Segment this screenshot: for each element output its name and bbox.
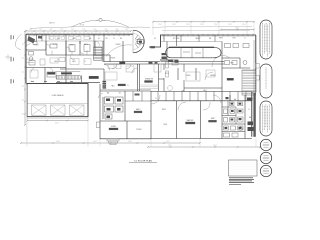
svg-text:STUDY: STUDY (53, 44, 58, 46)
svg-text:FY: FY (30, 38, 32, 40)
center hall walls (100, 60, 178, 91)
staircase hatched left (57, 76, 79, 79)
right wing top band dividers (161, 41, 223, 43)
svg-text:BED: BED (73, 38, 76, 40)
svg-text:12'-4": 12'-4" (214, 24, 218, 26)
tower core dark marks (138, 40, 144, 44)
svg-text:14'-0": 14'-0" (93, 141, 97, 143)
svg-text:12'-4": 12'-4" (158, 24, 162, 26)
garage dimension (26, 120, 89, 122)
outer walls (26, 34, 256, 137)
kitchen perimeter counters (166, 62, 179, 77)
top band dividers (37, 34, 105, 62)
top closet band dividers right wing (158, 92, 246, 101)
note pill 2 (260, 64, 272, 98)
door arc foyer (26, 44, 30, 48)
eave wavy line left (30, 26, 150, 28)
small fixtures right wing (225, 44, 250, 65)
hall dark label center wing (118, 84, 126, 86)
svg-text:16'-8": 16'-8" (235, 27, 239, 29)
garage outer walls (27, 84, 88, 117)
svg-text:14'-0": 14'-0" (166, 141, 170, 143)
svg-text:LNDRY: LNDRY (111, 126, 116, 128)
dark blob 2 (38, 36, 42, 38)
svg-text:ST: ST (49, 38, 51, 40)
bath maze walls (222, 101, 245, 132)
svg-text:RIDGE: RIDGE (80, 25, 84, 27)
kitchen island oval (166, 47, 221, 58)
garage top wall tick text (31, 80, 73, 83)
left margin tick (5, 55, 12, 60)
interior walls left block (26, 41, 224, 139)
eave line right (152, 26, 252, 27)
dark label above stair (61, 73, 71, 75)
svg-text:14'-0": 14'-0" (128, 141, 132, 143)
svg-text:CL: CL (113, 38, 115, 40)
svg-text:12'-4": 12'-4" (200, 24, 204, 26)
kitchen counters cluster (162, 53, 179, 63)
dining curve arc (106, 45, 132, 57)
left margin dim text smudges (11, 35, 14, 84)
svg-text:DN: DN (105, 38, 107, 40)
svg-text:CL: CL (155, 98, 157, 100)
svg-text:12'-4": 12'-4" (172, 24, 176, 26)
title block small line (229, 183, 241, 186)
title block text lines (229, 177, 254, 182)
svg-text:BRKF: BRKF (219, 38, 223, 40)
corridor door arcs (31, 55, 117, 73)
hall dark label (89, 76, 99, 78)
exterior boxes right wall (256, 64, 259, 81)
wing closet dividers (125, 92, 151, 102)
svg-text:BED 3: BED 3 (136, 109, 141, 111)
upper porch wall line right (162, 30, 250, 32)
porch steps (107, 139, 119, 145)
svg-text:LIV: LIV (154, 38, 156, 40)
svg-text:PORCH: PORCH (136, 129, 141, 131)
svg-text:CL: CL (40, 38, 42, 40)
note pill 1 (260, 20, 272, 59)
svg-text:12'-4": 12'-4" (242, 24, 246, 26)
svg-text:WC: WC (119, 93, 121, 95)
top dimension far right (220, 29, 255, 31)
window inner lines top walls (28, 34, 254, 37)
svg-text:1st FLOOR PLAN: 1st FLOOR PLAN (134, 159, 152, 162)
extra left block marks (26, 41, 100, 65)
right wing interior walls (100, 42, 252, 140)
svg-text:14'-0": 14'-0" (56, 141, 60, 143)
left vertical dim numbers (22, 42, 24, 114)
entry diagonal dark fixture (27, 36, 35, 43)
svg-text:HL: HL (98, 38, 100, 40)
svg-text:TERR: TERR (163, 124, 167, 126)
svg-text:DINING: DINING (115, 44, 121, 46)
stamp circle 1 (260, 139, 271, 150)
right wall dark band (253, 93, 255, 137)
tower stair treads (135, 35, 142, 48)
faint garage extension (26, 85, 28, 142)
top dimension line right upper (152, 21, 255, 23)
extension lines bottom (27, 117, 256, 147)
corridor dark marks right (149, 62, 153, 64)
svg-text:CL: CL (163, 38, 165, 40)
svg-text:12'-4": 12'-4" (186, 24, 190, 26)
svg-text:BED 1: BED 1 (70, 45, 74, 47)
wing door arc (99, 94, 104, 99)
stamp circle 2 (260, 152, 271, 163)
center wing bath fixtures (105, 97, 124, 119)
dome callout circle (99, 18, 102, 21)
dark label bar left room (48, 72, 56, 74)
window mullion ticks (29, 34, 253, 36)
bottom long dimension (20, 142, 201, 144)
svg-text:BED 2: BED 2 (211, 118, 216, 120)
hall door arcs left (132, 68, 138, 74)
garage door X-box 3 (70, 105, 85, 115)
bathroom fixtures outlines (224, 102, 244, 137)
door arcs bottom right (151, 95, 221, 110)
chimney box left of wing (96, 122, 100, 128)
svg-text:NOOK: NOOK (165, 73, 169, 75)
furniture marks left rooms (30, 58, 134, 80)
staircase hatched right (243, 71, 256, 94)
fixture dark accents (225, 97, 254, 131)
svg-text:DEN: DEN (232, 38, 235, 40)
stair dark label (227, 78, 234, 80)
tick row above wall (28, 32, 128, 33)
window fixture rects top band (49, 37, 90, 40)
top dimension line left (25, 30, 132, 32)
top band interior wall (26, 40, 104, 42)
LIV dark label (151, 46, 155, 48)
furniture marks right wing (154, 64, 215, 91)
dimension numbers top left (30, 29, 129, 31)
roof dome arc (71, 20, 129, 27)
center wing walls (100, 91, 151, 139)
extension lines right wing (153, 22, 254, 35)
svg-text:FOYER: FOYER (34, 45, 39, 47)
left exterior bay curve (15, 34, 21, 50)
garage door X-box 1 (32, 105, 47, 115)
left vertical dimension (24, 30, 26, 126)
note pill 3 (260, 101, 272, 136)
garage door X-box 2 (51, 105, 66, 115)
garage apron line (27, 117, 88, 119)
title block box (229, 160, 258, 176)
closet shelf stack center (103, 81, 107, 89)
svg-text:KITCHEN: KITCHEN (173, 38, 179, 40)
garage interior band (27, 103, 88, 105)
double wall center wing top (100, 89, 151, 91)
right wall inner line (253, 40, 255, 92)
bottom right room walls (151, 95, 252, 139)
door swing arc right (212, 55, 230, 67)
svg-text:MUD: MUD (54, 61, 57, 63)
table above stair (56, 71, 80, 73)
wc fixtures (29, 42, 91, 77)
entry tower round bay (133, 30, 144, 53)
hall label 2 dark (120, 62, 126, 64)
svg-text:31'-0": 31'-0" (55, 122, 59, 124)
svg-text:12'-4": 12'-4" (228, 24, 232, 26)
svg-text:CL: CL (248, 109, 250, 111)
bottom right dimension (147, 146, 261, 148)
stamp circle 3 (260, 165, 271, 176)
svg-text:DINING: DINING (185, 75, 191, 77)
svg-text:CL: CL (84, 61, 86, 63)
svg-text:CL: CL (127, 85, 129, 87)
svg-text:13'-2": 13'-2" (168, 145, 172, 147)
svg-text:CL: CL (244, 38, 246, 40)
pantry shelf dark cluster (94, 48, 103, 59)
svg-text:PWDR: PWDR (111, 58, 115, 60)
kitchen walls center (159, 35, 223, 92)
hall steps (141, 85, 159, 89)
svg-text:18'-4": 18'-4" (213, 145, 217, 147)
